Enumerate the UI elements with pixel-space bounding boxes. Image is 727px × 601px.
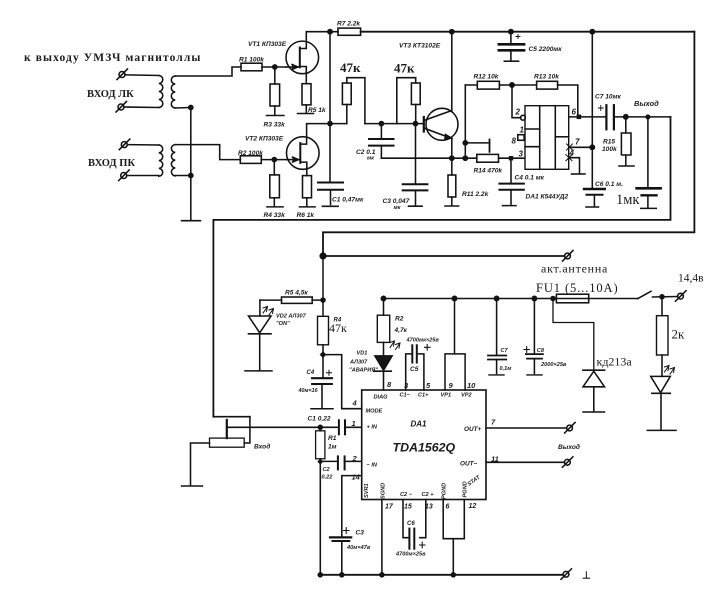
node C7b stub [494, 296, 498, 300]
svg-text:13: 13 [425, 504, 433, 511]
node wiper row [463, 156, 467, 160]
wire input to pin1 [227, 426, 338, 428]
wire common down [190, 108, 192, 221]
node gnd pins612 [451, 573, 455, 577]
svg-text:47к: 47к [340, 60, 361, 75]
resistor R1 1M [316, 427, 325, 461]
svg-text:1мк: 1мк [616, 192, 640, 208]
wire T2 secondary top to R2 [175, 145, 240, 160]
transformer T2 secondary [171, 145, 175, 176]
svg-text:PGND: PGND [442, 483, 448, 499]
resistor 47k B [397, 78, 420, 124]
svg-text:C4 0.1 мк: C4 0.1 мк [515, 175, 545, 182]
diode KD213A [583, 370, 605, 412]
resistor R1 100k [241, 63, 286, 71]
svg-text:кд213а: кд213а [597, 355, 633, 369]
svg-text:R6 1k: R6 1k [297, 212, 315, 219]
svg-text:47к: 47к [394, 61, 415, 76]
node gnd R1 [318, 573, 322, 577]
svg-text:C1 0,47мк: C1 0,47мк [332, 197, 364, 204]
wire C1pump stub right [417, 354, 424, 390]
capacitor C3 40m [330, 528, 351, 575]
svg-text:мк: мк [394, 205, 402, 211]
node VT3 emitter row [450, 156, 454, 160]
svg-text:OUT−: OUT− [460, 461, 477, 468]
wire pump C6 stubs [403, 500, 426, 538]
svg-text:R15: R15 [603, 139, 615, 146]
svg-text:R7 2.2k: R7 2.2k [337, 21, 360, 28]
terminal input LK bottom [116, 102, 159, 113]
svg-text:R13 10k: R13 10k [534, 74, 559, 81]
svg-text:ВХОД ЛК: ВХОД ЛК [87, 89, 134, 100]
svg-text:FU1 (5...10А): FU1 (5...10А) [536, 281, 619, 295]
capacitor C1 0.47mk [318, 183, 343, 207]
wire pin14 to C3 [342, 476, 362, 537]
capacitor C1b 0.22 [339, 420, 362, 434]
node R1 top [318, 425, 322, 429]
potentiometer Vhod [182, 417, 250, 486]
node R1 bottom [317, 459, 323, 465]
node C4 row [509, 156, 513, 160]
wire supply vertical x592 [591, 32, 593, 189]
wire outer supply line to bottom [323, 32, 694, 256]
resistor R7 2.2k [338, 28, 361, 35]
node T1 common [189, 105, 193, 109]
resistor R3 33k [267, 67, 285, 116]
wire VT3 collector up [451, 32, 453, 111]
wire inner output line to bottom [213, 117, 670, 417]
svg-text:R2 100k: R2 100k [238, 150, 263, 157]
node pin6 [577, 115, 582, 120]
node R2 top [381, 296, 385, 300]
svg-text:⊥: ⊥ [582, 571, 591, 582]
wire top rail left [306, 31, 338, 33]
node rail C5 [509, 30, 513, 34]
svg-text:TDA1562Q: TDA1562Q [393, 441, 456, 455]
resistor R2 4.7k [377, 299, 400, 356]
svg-text:8: 8 [512, 137, 517, 146]
svg-text:C7: C7 [501, 348, 509, 354]
node loop tap [551, 297, 555, 301]
capacitor C6 0.1 [584, 189, 605, 207]
node 47k row x330 [328, 122, 332, 126]
wire T2 secondary bottom to common [175, 175, 191, 177]
svg-text:"АВАРИЯ": "АВАРИЯ" [349, 368, 378, 374]
capacitor C4 0.1mk [499, 158, 523, 205]
node R15 [624, 115, 628, 119]
wire VT1 source down [305, 74, 307, 84]
resistor R4 33k [267, 160, 283, 207]
ground transformers [182, 220, 201, 222]
node VT2 gate [272, 158, 276, 162]
node VP stub [452, 296, 456, 300]
capacitor C6 4700mk [409, 529, 425, 549]
wire op-amp pin6 out [569, 116, 606, 118]
svg-text:11: 11 [491, 455, 499, 464]
node 2k junction [660, 295, 664, 299]
svg-text:10: 10 [467, 381, 476, 390]
svg-text:3: 3 [519, 150, 524, 159]
svg-text:2: 2 [352, 454, 358, 463]
wire ground rail [319, 574, 563, 576]
capacitor C2 0.1 [369, 124, 394, 159]
svg-text:SGND: SGND [381, 483, 387, 499]
svg-text:акт.антенна: акт.антенна [541, 262, 608, 276]
svg-text:R11 2.2k: R11 2.2k [462, 191, 489, 198]
capacitor C7b 0.1m [488, 299, 506, 375]
svg-text:R12 10k: R12 10k [474, 74, 499, 81]
svg-text:C3 0,047: C3 0,047 [383, 198, 410, 205]
svg-text:C2 −: C2 − [400, 492, 413, 498]
capacitor C7 10mk [598, 105, 614, 129]
wire feedback row [381, 157, 525, 159]
fuse FU1 [556, 294, 588, 303]
svg-text:6: 6 [446, 504, 450, 511]
resistor R15 100k [619, 117, 634, 166]
svg-text:7: 7 [575, 138, 580, 147]
svg-text:4700м×25в: 4700м×25в [395, 552, 426, 558]
op-amp DA1 box [525, 106, 569, 170]
terminal OUT+ [565, 423, 576, 434]
wire OUT- [486, 461, 564, 463]
node R5 row [321, 298, 325, 302]
svg-text:2к: 2к [672, 327, 686, 342]
svg-text:к выходу УМЗЧ магнитоллы: к выходу УМЗЧ магнитоллы [24, 52, 201, 64]
svg-text:R1: R1 [328, 435, 337, 442]
svg-text:R4 33k: R4 33k [264, 212, 286, 219]
capacitor C4 40m16 [311, 355, 333, 409]
resistor R5 4.5k [260, 297, 323, 303]
capacitor C5 4700mk pump [412, 345, 430, 363]
svg-text:40м×47в: 40м×47в [346, 545, 371, 551]
wire VP1 VP2 staple [445, 299, 465, 391]
resistor R14 470k trimmer [465, 140, 498, 163]
svg-text:4: 4 [352, 399, 358, 408]
node T2 common [189, 173, 193, 177]
svg-text:R5 4,5к: R5 4,5к [285, 290, 308, 297]
node VT1 gate [273, 65, 277, 69]
svg-text:C2 +: C2 + [422, 492, 435, 498]
svg-text:4700мк×25в: 4700мк×25в [406, 338, 440, 344]
led right HL [647, 366, 676, 431]
svg-text:C5 2200мк: C5 2200мк [529, 46, 563, 53]
wire op-amp pin4 ground [569, 158, 585, 174]
wire T1 secondary top to R1 [175, 67, 241, 76]
svg-text:R1 100k: R1 100k [239, 57, 264, 64]
svg-text:Вход: Вход [254, 443, 270, 451]
node antenna junction [320, 253, 326, 259]
transformer T1 primary [159, 76, 163, 108]
svg-text:17: 17 [385, 504, 394, 511]
resistor R2 100k [240, 156, 286, 164]
svg-text:4: 4 [569, 149, 575, 158]
svg-text:OUT+: OUT+ [464, 426, 481, 433]
wire VT3 emitter down [451, 139, 453, 159]
svg-text:C3: C3 [356, 530, 365, 537]
svg-text:мк: мк [367, 156, 375, 162]
terminal input LK top [117, 69, 159, 80]
wire C1pump stub left [406, 354, 412, 390]
svg-text:1: 1 [352, 419, 356, 428]
svg-text:R2: R2 [395, 316, 404, 323]
svg-text:ВХОД ПК: ВХОД ПК [88, 158, 135, 169]
svg-text:Выход: Выход [634, 99, 659, 108]
wire output right [614, 116, 671, 118]
svg-text:АЛ307: АЛ307 [349, 360, 368, 366]
wire bottom supply rail [384, 298, 557, 300]
node VT3 base row [413, 122, 417, 126]
capacitor C5 2200mk [499, 32, 524, 62]
svg-text:C6 0.1 м.: C6 0.1 м. [595, 181, 623, 188]
svg-text:0,1м: 0,1м [500, 366, 513, 372]
wire x330 vertical [329, 32, 331, 182]
transformer T1 secondary [171, 76, 175, 108]
wire antenna line [323, 255, 564, 257]
svg-text:VD1: VD1 [357, 351, 368, 357]
svg-text:47к: 47к [329, 321, 347, 335]
wire 47k row right segment [365, 123, 424, 125]
svg-text:C5: C5 [410, 366, 419, 373]
wire pins 6 12 PGND [443, 500, 464, 575]
svg-text:VT3 КТ3102Е: VT3 КТ3102Е [399, 43, 441, 50]
IC DA1 TDA1562Q box [362, 390, 486, 500]
resistor R13 10k [512, 81, 578, 117]
transistor VT3 KT3102E [424, 108, 458, 140]
svg-text:2000×25в: 2000×25в [540, 362, 567, 368]
svg-text:DA1 К544УД2: DA1 К544УД2 [526, 194, 569, 201]
wire pin17 SGND down [381, 500, 383, 575]
svg-text:R5 1k: R5 1k [308, 107, 326, 114]
transistor VT1 KP303E (JFET) [286, 41, 319, 74]
svg-text:VD2 АЛ307: VD2 АЛ307 [276, 314, 307, 320]
svg-text:− IN: − IN [367, 463, 378, 469]
terminal antenna [563, 251, 574, 262]
svg-text:40м×16: 40м×16 [298, 388, 319, 394]
wire top rail main [361, 31, 695, 33]
wire op-amp pin7 supply [569, 146, 593, 148]
resistor R6 1k [300, 169, 316, 207]
node pin7 [590, 145, 594, 149]
resistor R5 1k [298, 84, 314, 114]
led VD1 AL307 AVARIA [374, 356, 392, 390]
svg-text:14,4в: 14,4в [678, 273, 704, 285]
svg-text:Выход: Выход [558, 443, 580, 451]
svg-text:MODE: MODE [366, 409, 383, 415]
svg-text:2: 2 [515, 108, 521, 117]
svg-text:C4: C4 [307, 370, 315, 376]
svg-text:C6: C6 [407, 521, 415, 527]
terminal 14.4v [676, 291, 687, 302]
resistor 47k A [342, 78, 365, 124]
terminal input PK top [119, 139, 159, 150]
svg-text:C1+: C1+ [418, 393, 429, 399]
wire T1 secondary bottom to common [175, 107, 191, 110]
resistor R11 2.2k [445, 158, 460, 206]
svg-text:12: 12 [469, 503, 477, 510]
svg-text:DIAG: DIAG [374, 395, 389, 401]
svg-text:C2: C2 [323, 467, 331, 473]
svg-text:VT1 КП303Е: VT1 КП303Е [248, 41, 287, 48]
svg-text:R3 33k: R3 33k [264, 122, 286, 129]
transformer T2 primary [159, 145, 163, 176]
terminal ground [561, 569, 572, 580]
op-amp pin7 X mark [567, 144, 573, 150]
op-amp pin1/8 square [518, 135, 524, 141]
wire antenna junction down [322, 256, 324, 316]
wire op-amp pin2 [512, 85, 521, 118]
wire MODE [323, 355, 362, 409]
node 1mk cap [646, 115, 650, 119]
node R12/R13 [510, 83, 514, 87]
capacitor C8 2000x25 [524, 299, 543, 375]
svg-text:1: 1 [520, 126, 525, 135]
resistor R12 10k [465, 81, 512, 89]
svg-text:DA1: DA1 [411, 420, 428, 429]
resistor R4 47k [318, 316, 329, 354]
svg-text:"ON": "ON" [276, 321, 290, 327]
svg-text:VP2: VP2 [461, 393, 472, 399]
switch SA [638, 291, 678, 298]
node rail VT3 collector [450, 30, 454, 34]
svg-text:6: 6 [572, 108, 577, 117]
svg-text:1м: 1м [328, 444, 337, 451]
node wiper tap [463, 141, 467, 145]
wire R1 bottom to ground rail [319, 461, 321, 574]
op-amp pin4 X mark [566, 155, 572, 161]
node C2 top [379, 122, 383, 126]
wire R12-left vertical [464, 85, 466, 158]
capacitor C3 0.047 [403, 184, 428, 206]
wire 47k row left segment [307, 124, 347, 137]
svg-text:SVR1: SVR1 [364, 483, 370, 498]
wire diode loop [553, 299, 594, 371]
svg-text:R14 470k: R14 470k [474, 168, 503, 175]
svg-text:+ IN: + IN [367, 425, 378, 431]
svg-text:15: 15 [404, 504, 412, 511]
node rail x330 [328, 30, 332, 34]
terminal input PK bottom [119, 170, 159, 181]
node MODE junction [320, 351, 327, 358]
node gnd C3 [340, 573, 344, 577]
resistor 2k [657, 297, 669, 377]
node gnd pin17 [380, 573, 384, 577]
svg-text:C1 0,22: C1 0,22 [308, 416, 331, 423]
svg-text:C7 10мк: C7 10мк [595, 94, 621, 101]
capacitor 1mk [637, 117, 661, 208]
node rail supply-down [590, 30, 594, 34]
svg-text:C1−: C1− [400, 393, 411, 399]
wire OUT+ [486, 427, 567, 429]
svg-text:100k: 100k [602, 146, 617, 153]
svg-text:VT2 КП303Е: VT2 КП303Е [245, 136, 284, 143]
wire VT1 drain to rail [305, 32, 307, 42]
wire fuse to switch [589, 298, 638, 300]
svg-text:VP1: VP1 [441, 393, 452, 399]
transistor VT2 KP303E (JFET) [287, 137, 320, 170]
svg-text:4,7к: 4,7к [394, 327, 408, 334]
capacitor C2b 0.22 [320, 456, 361, 469]
svg-text:0,22: 0,22 [322, 475, 334, 481]
node C8 stub [532, 296, 536, 300]
wire VT3 base line down to C3 [415, 124, 417, 185]
terminal OUT- [562, 457, 573, 468]
op-amp pin2 circle [521, 115, 526, 120]
svg-text:14: 14 [352, 473, 361, 482]
led VD2 AL307 ON [245, 300, 274, 371]
svg-text:C8: C8 [537, 348, 545, 354]
